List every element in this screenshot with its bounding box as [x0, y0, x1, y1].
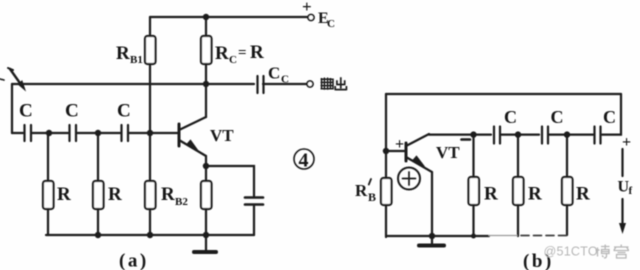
svg-text:R: R — [484, 184, 498, 205]
svg-text:f: f — [629, 185, 633, 197]
capacitor C1 (b) — [494, 107, 517, 144]
svg-text:=: = — [238, 45, 247, 61]
resistor R3 (b) — [562, 135, 590, 235]
wire ladder segment 2 (b) — [501, 134, 539, 136]
node R1 bottom (b) — [471, 234, 476, 239]
resistor R (first, a) — [43, 133, 71, 235]
node bottom 2 (a) — [147, 232, 153, 238]
node emitter bottom (b) — [429, 233, 435, 239]
node 1 (a) — [46, 130, 52, 136]
wire ladder segment 3 (b) — [549, 134, 593, 136]
svg-text:C: C — [281, 74, 289, 86]
svg-text:VT: VT — [210, 126, 234, 145]
svg-text:R: R — [108, 184, 122, 205]
svg-text:(a): (a) — [119, 251, 149, 270]
Uf arrow — [618, 149, 633, 234]
svg-text:R: R — [355, 181, 368, 200]
node ladder 2 (b) — [515, 131, 521, 137]
svg-text:R: R — [161, 184, 175, 205]
svg-text:VT: VT — [436, 143, 460, 162]
transistor VT (a) — [179, 84, 234, 166]
svg-text:C: C — [268, 64, 280, 83]
capacitor C1 (a) — [19, 101, 33, 142]
svg-text:C: C — [229, 54, 237, 66]
capacitor CE (a) — [245, 198, 263, 236]
svg-text:B: B — [368, 190, 376, 204]
node emitter (a) — [203, 163, 209, 169]
wire collector to ladder (b) — [429, 134, 491, 136]
ground (b) — [419, 236, 444, 246]
wire phase-shift line segment 1 — [12, 132, 23, 134]
node ladder 3 (b) — [564, 131, 570, 137]
svg-text:C: C — [65, 101, 79, 122]
terminal +Ec — [302, 0, 335, 30]
wire bottom rail (a) — [46, 234, 254, 236]
wire top supply rail (a) — [150, 16, 308, 18]
wire bottom (b) faint — [489, 235, 517, 237]
svg-text:C: C — [117, 101, 131, 122]
svg-text:R: R — [57, 184, 71, 205]
resistor R2 (b) — [513, 135, 542, 236]
terminal output — [307, 81, 313, 87]
resistor RC — [201, 17, 264, 84]
svg-text:C: C — [551, 107, 564, 127]
minus annotation at collector (b) — [462, 138, 471, 141]
capacitor C2 (b) — [542, 107, 564, 144]
resistor R'B — [355, 178, 392, 205]
wire segment to node 1 — [32, 132, 68, 134]
wire bottom (b) dashed — [521, 235, 567, 237]
wire bottom (b) solid — [386, 235, 489, 237]
svg-text:R: R — [116, 43, 130, 64]
svg-text:R: R — [215, 43, 229, 64]
svg-text:+: + — [302, 0, 312, 16]
capacitor C2 (a) — [65, 101, 79, 142]
svg-text:C: C — [19, 101, 33, 122]
svg-text:R: R — [528, 184, 542, 205]
wire left-edge stub — [0, 79, 4, 80]
svg-text:R: R — [576, 184, 590, 205]
wire emitter to CE — [206, 166, 254, 196]
node bottom ground (a) — [203, 232, 209, 238]
resistor RB2 — [145, 133, 188, 235]
wire left feedback vertical (a) — [11, 84, 13, 133]
wire output line (a) — [12, 83, 254, 85]
svg-text:B1: B1 — [130, 54, 143, 66]
resistor RB1 — [116, 17, 156, 133]
ground (a) — [194, 235, 216, 252]
node collector-rail junction (a) — [203, 14, 209, 20]
resistor RE (unlabelled, a) — [201, 166, 212, 235]
wire top feedback (b) — [386, 93, 621, 95]
svg-text:C: C — [327, 18, 335, 30]
svg-text:@51CTO: @51CTO — [544, 245, 598, 259]
node ladder 1 (b) — [470, 131, 476, 137]
node 2 (a) — [95, 130, 101, 136]
node base junction (b) — [383, 148, 389, 154]
svg-text:C: C — [504, 107, 517, 127]
watermark — [544, 245, 630, 259]
node base/RB junction (a) — [147, 130, 153, 136]
svg-text:C: C — [603, 107, 616, 127]
circled number 4 — [294, 149, 314, 172]
circled plus source symbol (b) — [398, 168, 420, 190]
node collector/output junction (a) — [203, 81, 209, 87]
resistor R (second, a) — [93, 133, 122, 235]
wire segment to node 2 — [77, 132, 120, 134]
transistor VT (b) — [386, 134, 460, 236]
wire ladder to right corner (b) — [602, 94, 621, 135]
capacitor CC — [258, 64, 308, 94]
wire left vertical (b) — [385, 94, 387, 237]
resistor R1 (b) — [469, 135, 499, 236]
node bottom 1 (a) — [95, 232, 101, 238]
label 输出 (drawn strokes) — [321, 77, 347, 90]
capacitor C3 (b) — [595, 107, 617, 144]
capacitor C3 (a) — [117, 101, 131, 142]
feedback break arrow (top-left) — [8, 68, 25, 90]
svg-text:R: R — [250, 42, 264, 63]
wire segment to base — [129, 132, 179, 134]
svg-text:4: 4 — [299, 150, 309, 172]
svg-text:B2: B2 — [175, 196, 188, 208]
svg-text:+: + — [395, 136, 404, 153]
